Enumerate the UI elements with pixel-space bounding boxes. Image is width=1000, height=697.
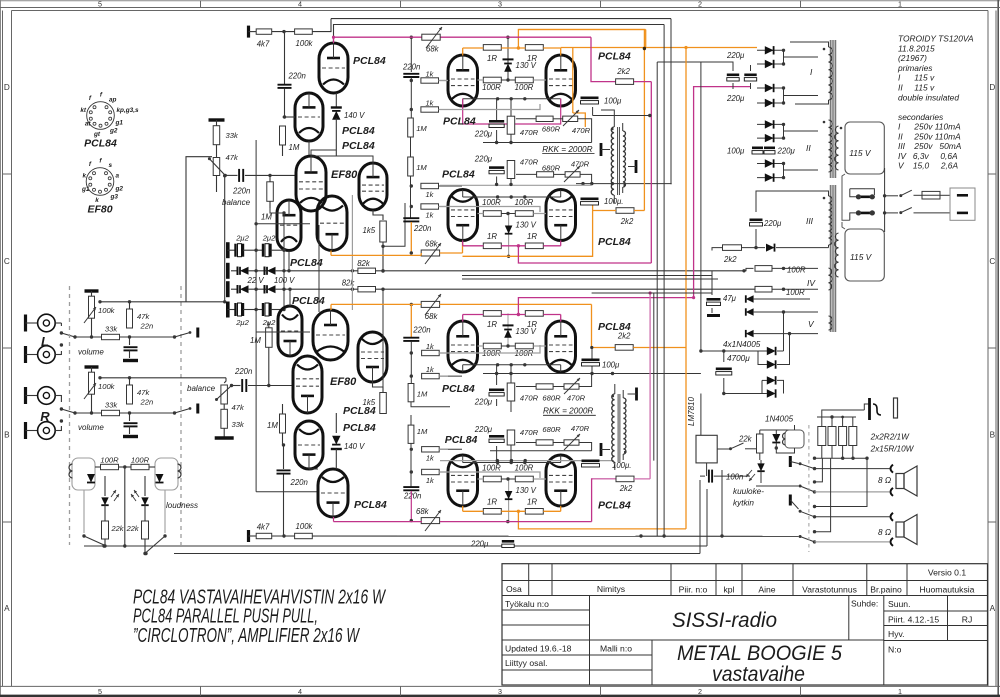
resistor 2k2 PSU: [723, 245, 742, 251]
svg-text:1k: 1k: [426, 211, 434, 220]
output cell row1 (2x PCL84): [448, 55, 478, 106]
svg-text:100n: 100n: [726, 473, 743, 482]
grid network B: [408, 157, 414, 176]
tube pinout EF80: [86, 168, 114, 196]
svg-text:1M: 1M: [416, 124, 427, 133]
resistor 4k7 bottom: [256, 533, 272, 538]
svg-text:EF80: EF80: [87, 204, 112, 216]
svg-text:680R: 680R: [542, 125, 561, 134]
upper channel feedback network: [489, 120, 504, 123]
rail x657: [657, 62, 733, 65]
svg-text:2x15R/10W: 2x15R/10W: [870, 445, 915, 454]
svg-text:1k: 1k: [426, 342, 434, 351]
svg-text:68k: 68k: [425, 240, 439, 249]
svg-text:Hyv.: Hyv.: [888, 629, 905, 639]
svg-text:double insulated: double insulated: [898, 92, 959, 102]
svg-text:PCL84: PCL84: [343, 405, 376, 417]
wire LM7810: [700, 394, 702, 436]
svg-text:4x1N4005: 4x1N4005: [723, 340, 761, 349]
wire 1M to bias rail: [270, 208, 284, 213]
svg-text:220n: 220n: [232, 187, 250, 196]
interstage transformer 1: [611, 127, 614, 195]
pentode V2 PCL84 follower: [359, 163, 387, 210]
svg-text:1k: 1k: [426, 476, 434, 485]
magenta top wire: [332, 36, 335, 39]
svg-text:Piir. n:o: Piir. n:o: [679, 585, 708, 595]
orange riser 2: [685, 48, 687, 529]
svg-text:PCL84: PCL84: [342, 125, 375, 137]
svg-text:1R: 1R: [487, 497, 497, 506]
interstage transformer 2: [612, 394, 615, 462]
svg-text:2k2: 2k2: [723, 255, 737, 264]
svg-text:4k7: 4k7: [257, 40, 270, 49]
svg-text:1R: 1R: [487, 54, 497, 63]
svg-text:2μ2: 2μ2: [235, 318, 249, 327]
section boundary dashed lines: [69, 286, 71, 545]
svg-text:I 250v 110mA: I 250v 110mA: [898, 122, 961, 132]
svg-text:kp,g3,s: kp,g3,s: [117, 107, 139, 114]
svg-text:680R: 680R: [542, 425, 561, 434]
triode V3b2 phase splitter: [313, 310, 348, 360]
svg-text:470R: 470R: [571, 160, 590, 169]
grid feed row3 a: [439, 345, 540, 353]
svg-text:RJ: RJ: [962, 615, 973, 625]
triode V4 PCL84 bottom: [295, 421, 323, 469]
svg-text:ap: ap: [109, 97, 117, 104]
svg-text:220μ: 220μ: [474, 425, 493, 434]
svg-text:100R: 100R: [482, 464, 501, 473]
svg-text:100R: 100R: [482, 198, 501, 207]
resistor 82k lower: [358, 287, 376, 292]
lower channel feedback network: [489, 388, 504, 391]
svg-text:PCL84: PCL84: [598, 236, 631, 248]
relay switch: [717, 448, 730, 450]
svg-text:220n: 220n: [290, 478, 308, 487]
output cell row4 (2x PCL84): [448, 455, 478, 506]
svg-text:EF80: EF80: [331, 169, 358, 181]
svg-text:Piirt. 4.12.-15: Piirt. 4.12.-15: [888, 615, 939, 625]
svg-text:100 V: 100 V: [274, 276, 295, 285]
svg-text:33k: 33k: [232, 420, 245, 429]
svg-text:II: II: [806, 143, 811, 153]
bottom bus wires: [84, 545, 707, 547]
resistor 1k5 top: [373, 210, 383, 220]
triode V1a PCL84: [319, 43, 348, 93]
svg-text:100R: 100R: [787, 266, 806, 275]
svg-text:68k: 68k: [426, 45, 440, 54]
svg-text:RKK = 2000R: RKK = 2000R: [542, 145, 592, 154]
rectifier diodes I: [757, 49, 784, 51]
gray link bottom right: [699, 480, 701, 554]
rectifier diodes II: [757, 123, 784, 125]
tube pinout PCL84: [87, 102, 115, 130]
grid feed row1 b: [439, 104, 541, 110]
capacitor 220n V1: [284, 32, 286, 84]
heater tap arrows: [746, 295, 754, 302]
svg-text:Työkalu n:o: Työkalu n:o: [505, 599, 549, 609]
magenta riser 1: [634, 81, 651, 83]
svg-text:PCL84: PCL84: [292, 295, 325, 307]
svg-text:PCL84: PCL84: [442, 169, 475, 181]
svg-text:1M: 1M: [417, 427, 428, 436]
input bar top: [247, 26, 250, 38]
winding III rectifier: [756, 191, 829, 212]
winding IV resistors: [744, 268, 754, 270]
wire R volume to bottom balance: [224, 378, 226, 383]
svg-text:”CIRCLOTRON”, AMPLIFIER 2x16 W: ”CIRCLOTRON”, AMPLIFIER 2x16 W: [133, 625, 360, 647]
svg-text:680R: 680R: [542, 164, 561, 173]
pink 2k2 D wire: [593, 478, 616, 480]
svg-text:A: A: [4, 604, 10, 613]
svg-text:130 V: 130 V: [516, 61, 537, 70]
svg-text:470R: 470R: [567, 394, 586, 403]
svg-text:METAL BOOGIE 5: METAL BOOGIE 5: [677, 642, 842, 665]
svg-text:N:o: N:o: [888, 645, 902, 655]
svg-text:2: 2: [698, 687, 702, 696]
svg-text:130 V: 130 V: [516, 221, 537, 230]
svg-text:470R: 470R: [571, 424, 590, 433]
svg-text:220n: 220n: [403, 492, 421, 501]
svg-text:220n: 220n: [413, 224, 431, 233]
svg-text:100μ.: 100μ.: [604, 197, 623, 206]
svg-text:loudness: loudness: [166, 501, 198, 510]
volume network R: [85, 365, 99, 368]
svg-text:Updated 19.6.-18: Updated 19.6.-18: [505, 644, 572, 654]
resistor 100k top: [295, 29, 313, 34]
svg-text:IV 6,3v 0,6A: IV 6,3v 0,6A: [898, 151, 958, 161]
wire 100u to magenta: [593, 115, 650, 117]
svg-text:220n: 220n: [412, 325, 430, 334]
svg-text:EF80: EF80: [330, 376, 357, 388]
balance network top: [209, 118, 225, 121]
svg-text:22k: 22k: [126, 524, 139, 533]
svg-text:I 115 v: I 115 v: [898, 73, 935, 83]
svg-text:1k: 1k: [426, 190, 434, 199]
svg-text:1R: 1R: [527, 232, 537, 241]
svg-text:100R: 100R: [515, 198, 534, 207]
title block: [502, 564, 988, 685]
svg-text:Nimitys: Nimitys: [597, 584, 625, 594]
svg-text:100R: 100R: [515, 464, 534, 473]
grid feed row4 b: [439, 472, 540, 478]
svg-text:g2: g2: [115, 186, 124, 193]
svg-text:2x2R2/1W: 2x2R2/1W: [870, 433, 910, 442]
svg-text:1R: 1R: [487, 232, 497, 241]
triode V3a2 phase splitter: [278, 306, 302, 356]
svg-text:primaries: primaries: [897, 63, 933, 73]
svg-text:3: 3: [498, 687, 502, 696]
orange anode bus row2: [463, 203, 593, 256]
svg-text:2k2: 2k2: [620, 217, 634, 226]
LED relay: [757, 463, 764, 471]
svg-text:1N4005: 1N4005: [765, 415, 794, 424]
wire 1k5b: [382, 289, 384, 392]
svg-text:220μ: 220μ: [474, 130, 493, 139]
bias network 22V/100V: [226, 242, 230, 258]
grid feed row3 b: [439, 375, 448, 377]
svg-text:4: 4: [298, 0, 302, 9]
triode V3a phase splitter: [277, 200, 301, 251]
pentode EF80 top: [296, 156, 326, 211]
wire rail 82k upper: [286, 270, 358, 272]
magenta cathode link row1: [463, 99, 561, 125]
grid network D: [408, 425, 414, 443]
svg-text:Suun.: Suun.: [888, 599, 910, 609]
wire top rail B: [334, 25, 665, 44]
svg-text:4: 4: [298, 687, 302, 696]
svg-text:D: D: [989, 83, 995, 92]
svg-text:220μ: 220μ: [726, 51, 745, 60]
wire EF80 anode to follower: [311, 150, 336, 156]
capacitor 47u: [711, 271, 713, 295]
svg-text:PCL84: PCL84: [354, 499, 387, 511]
RCA jack L1: [24, 315, 27, 332]
svg-text:115 V: 115 V: [849, 148, 872, 158]
gray vertical rail x352: [351, 195, 353, 310]
potentiometer 68k B: [421, 250, 439, 256]
wire rail 82k lower: [286, 288, 358, 290]
rail x671: [670, 19, 672, 185]
svg-text:470R: 470R: [520, 128, 539, 137]
svg-text:g3: g3: [110, 194, 119, 201]
potentiometer 68k A: [422, 34, 440, 40]
svg-text:2k2: 2k2: [616, 67, 630, 76]
input switch R: [60, 407, 63, 410]
svg-text:4k7: 4k7: [257, 523, 270, 532]
svg-text:100R: 100R: [482, 83, 501, 92]
wire splitter mid: [288, 251, 290, 271]
speaker switch: [789, 456, 792, 467]
svg-text:a: a: [116, 173, 120, 180]
svg-text:1k: 1k: [426, 453, 434, 462]
grid network C: [421, 301, 439, 307]
svg-text:s: s: [109, 162, 113, 169]
svg-text:100μ: 100μ: [727, 147, 745, 156]
svg-text:kpl: kpl: [724, 585, 735, 595]
svg-text:130 V: 130 V: [516, 327, 537, 336]
svg-text:Br.paino: Br.paino: [870, 585, 902, 595]
grid feed row1 a: [439, 80, 449, 82]
svg-text:220μ: 220μ: [474, 398, 493, 407]
triode V3b phase splitter: [317, 196, 347, 251]
mains selector switch fuse plug: [842, 174, 850, 220]
svg-text:R: R: [40, 409, 50, 424]
resistor 1M V1: [283, 116, 285, 118]
svg-text:B: B: [4, 431, 10, 440]
resistor 82k upper: [358, 268, 376, 273]
resistor 2k2 D: [616, 476, 634, 482]
svg-text:Varastotunnus: Varastotunnus: [802, 585, 857, 595]
svg-text:2μ2: 2μ2: [235, 234, 249, 243]
svg-text:33k: 33k: [226, 131, 239, 140]
svg-text:B: B: [990, 431, 996, 440]
svg-text:kt: kt: [80, 107, 87, 114]
zener 140V bottom: [335, 413, 337, 433]
svg-text:22n: 22n: [140, 322, 154, 331]
orange 2k2B wire: [593, 210, 616, 212]
svg-text:220μ: 220μ: [777, 147, 796, 156]
svg-text:Versio 0.1: Versio 0.1: [928, 568, 966, 578]
svg-text:g1: g1: [81, 186, 90, 193]
svg-text:L: L: [41, 334, 49, 349]
svg-text:3: 3: [498, 0, 502, 9]
RCA jack R1: [24, 387, 27, 404]
volume network L: [85, 289, 99, 292]
magenta bottom wire: [334, 521, 423, 523]
svg-text:PCL84: PCL84: [353, 55, 386, 67]
svg-text:balance: balance: [222, 198, 251, 207]
svg-text:22k: 22k: [111, 524, 124, 533]
orange bus to PSU row1: [561, 47, 757, 49]
grid feed row4 a: [439, 448, 448, 450]
toroid transformer 2: [829, 185, 831, 332]
pentode EF80 bottom: [293, 356, 322, 413]
magenta anode row2: [463, 245, 484, 247]
wire LM7810 feed: [700, 62, 702, 351]
svg-text:secondaries: secondaries: [898, 112, 944, 122]
grid feed row2 b: [439, 207, 541, 213]
svg-text:PCL84: PCL84: [343, 422, 376, 434]
RCA jack R2: [24, 422, 27, 439]
svg-text:A: A: [990, 604, 996, 613]
svg-text:kuuloke-: kuuloke-: [733, 487, 764, 496]
svg-text:PCL84: PCL84: [443, 116, 476, 128]
svg-text:1: 1: [898, 687, 902, 696]
svg-text:470R: 470R: [520, 394, 539, 403]
orange wire netC: [331, 303, 421, 305]
svg-text:V 15,0 2,6A: V 15,0 2,6A: [898, 161, 958, 171]
wire V5 bottom lead: [333, 517, 335, 522]
svg-text:SISSI-radio: SISSI-radio: [672, 609, 777, 632]
svg-text:Osa: Osa: [506, 584, 522, 594]
svg-text:vastavaihe: vastavaihe: [712, 663, 805, 686]
svg-text:volume: volume: [78, 423, 104, 432]
svg-text:1R: 1R: [527, 497, 537, 506]
speaker dropping resistors: [818, 427, 826, 446]
svg-text:22n: 22n: [140, 398, 154, 407]
svg-text:at: at: [85, 121, 92, 128]
svg-text:5: 5: [98, 0, 102, 9]
svg-text:100μ: 100μ: [602, 361, 620, 370]
svg-text:II 250v 110mA: II 250v 110mA: [898, 131, 961, 141]
svg-text:Aine: Aine: [758, 585, 775, 595]
svg-text:kytkin: kytkin: [733, 499, 754, 508]
svg-text:47k: 47k: [232, 403, 245, 412]
input switch L: [60, 331, 63, 334]
svg-text:220n: 220n: [234, 367, 252, 376]
resistor 100k bottom: [295, 533, 313, 538]
svg-text:1M: 1M: [289, 143, 300, 152]
orange anode bus row4: [518, 511, 686, 529]
wire 100u lower1 links: [591, 348, 593, 359]
zener 140V top: [335, 93, 337, 107]
resistor 2k2 B: [616, 208, 634, 214]
svg-text:Liittyy osal.: Liittyy osal.: [505, 658, 548, 668]
svg-text:115 V: 115 V: [850, 252, 873, 262]
svg-text:RKK = 2000R: RKK = 2000R: [543, 407, 593, 416]
output cell row2 (2x PCL84): [448, 190, 478, 241]
orange wire netB: [331, 254, 421, 256]
magenta riser 2: [694, 87, 750, 298]
svg-text:8 Ω: 8 Ω: [878, 476, 891, 485]
svg-text:5: 5: [98, 687, 102, 696]
svg-text:g2: g2: [109, 128, 118, 135]
svg-text:4700μ: 4700μ: [727, 354, 750, 363]
svg-text:220μ: 220μ: [474, 155, 493, 164]
speaker 1: [896, 474, 904, 489]
svg-text:1M: 1M: [416, 163, 427, 172]
svg-text:100k: 100k: [296, 522, 314, 531]
svg-text:1k: 1k: [426, 70, 434, 79]
grid network A: [410, 37, 412, 72]
svg-text:Malli n:o: Malli n:o: [600, 644, 632, 654]
svg-text:PCL84: PCL84: [598, 51, 631, 63]
resistor 1M V4: [280, 414, 286, 433]
LM7810 regulator: [696, 435, 717, 463]
RCA jack L2: [24, 346, 27, 363]
svg-text:100k: 100k: [98, 382, 116, 391]
svg-text:680R: 680R: [542, 394, 561, 403]
magenta anode row3: [463, 314, 484, 316]
mid horizontals: [462, 275, 712, 277]
svg-text:220μ: 220μ: [763, 219, 782, 228]
svg-text:II 115 v: II 115 v: [898, 83, 935, 93]
wire 100k up: [312, 19, 331, 32]
svg-text:220n: 220n: [402, 63, 420, 72]
svg-text:140 V: 140 V: [344, 111, 365, 120]
svg-text:PCL84: PCL84: [84, 138, 117, 150]
headphone jack: [864, 404, 869, 410]
svg-text:(21967): (21967): [898, 53, 927, 63]
svg-text:47k: 47k: [137, 388, 150, 397]
svg-text:1: 1: [898, 0, 902, 9]
svg-text:130 V: 130 V: [516, 486, 537, 495]
grid bias wire: [256, 223, 310, 225]
svg-text:47k: 47k: [137, 312, 150, 321]
svg-text:100μ: 100μ: [604, 97, 622, 106]
svg-text:68k: 68k: [416, 507, 430, 516]
svg-text:220μ: 220μ: [726, 94, 745, 103]
svg-text:Huomautuksia: Huomautuksia: [920, 585, 975, 595]
svg-text:470R: 470R: [520, 158, 539, 167]
svg-text:PCL84: PCL84: [445, 434, 478, 446]
toroid transformer 1: [829, 40, 831, 178]
svg-text:68k: 68k: [425, 312, 439, 321]
orange anode row4 bus2: [463, 510, 484, 512]
svg-text:100R: 100R: [100, 456, 119, 465]
svg-text:47μ: 47μ: [723, 294, 737, 303]
svg-text:33k: 33k: [105, 325, 118, 334]
grid bias wire2: [256, 331, 310, 333]
svg-text:LM7810: LM7810: [687, 397, 696, 426]
triode V5 PCL84 bottom: [318, 469, 348, 517]
resistor 4k7 top: [256, 29, 272, 34]
orange 2k2C right: [633, 347, 686, 349]
svg-text:2μ2: 2μ2: [262, 318, 276, 327]
svg-text:III 250v 50mA: III 250v 50mA: [898, 141, 962, 151]
relay coil: [785, 430, 804, 448]
svg-text:470R: 470R: [572, 126, 591, 135]
svg-text:140 V: 140 V: [344, 442, 365, 451]
vertical wire x319: [318, 225, 320, 312]
svg-text:82k: 82k: [357, 259, 371, 268]
svg-text:100k: 100k: [296, 39, 314, 48]
svg-text:82k: 82k: [342, 279, 356, 288]
svg-text:47k: 47k: [226, 153, 239, 162]
svg-text:1k: 1k: [426, 365, 434, 374]
wire 4k7-100k: [272, 31, 295, 33]
rail x664: [663, 25, 665, 537]
